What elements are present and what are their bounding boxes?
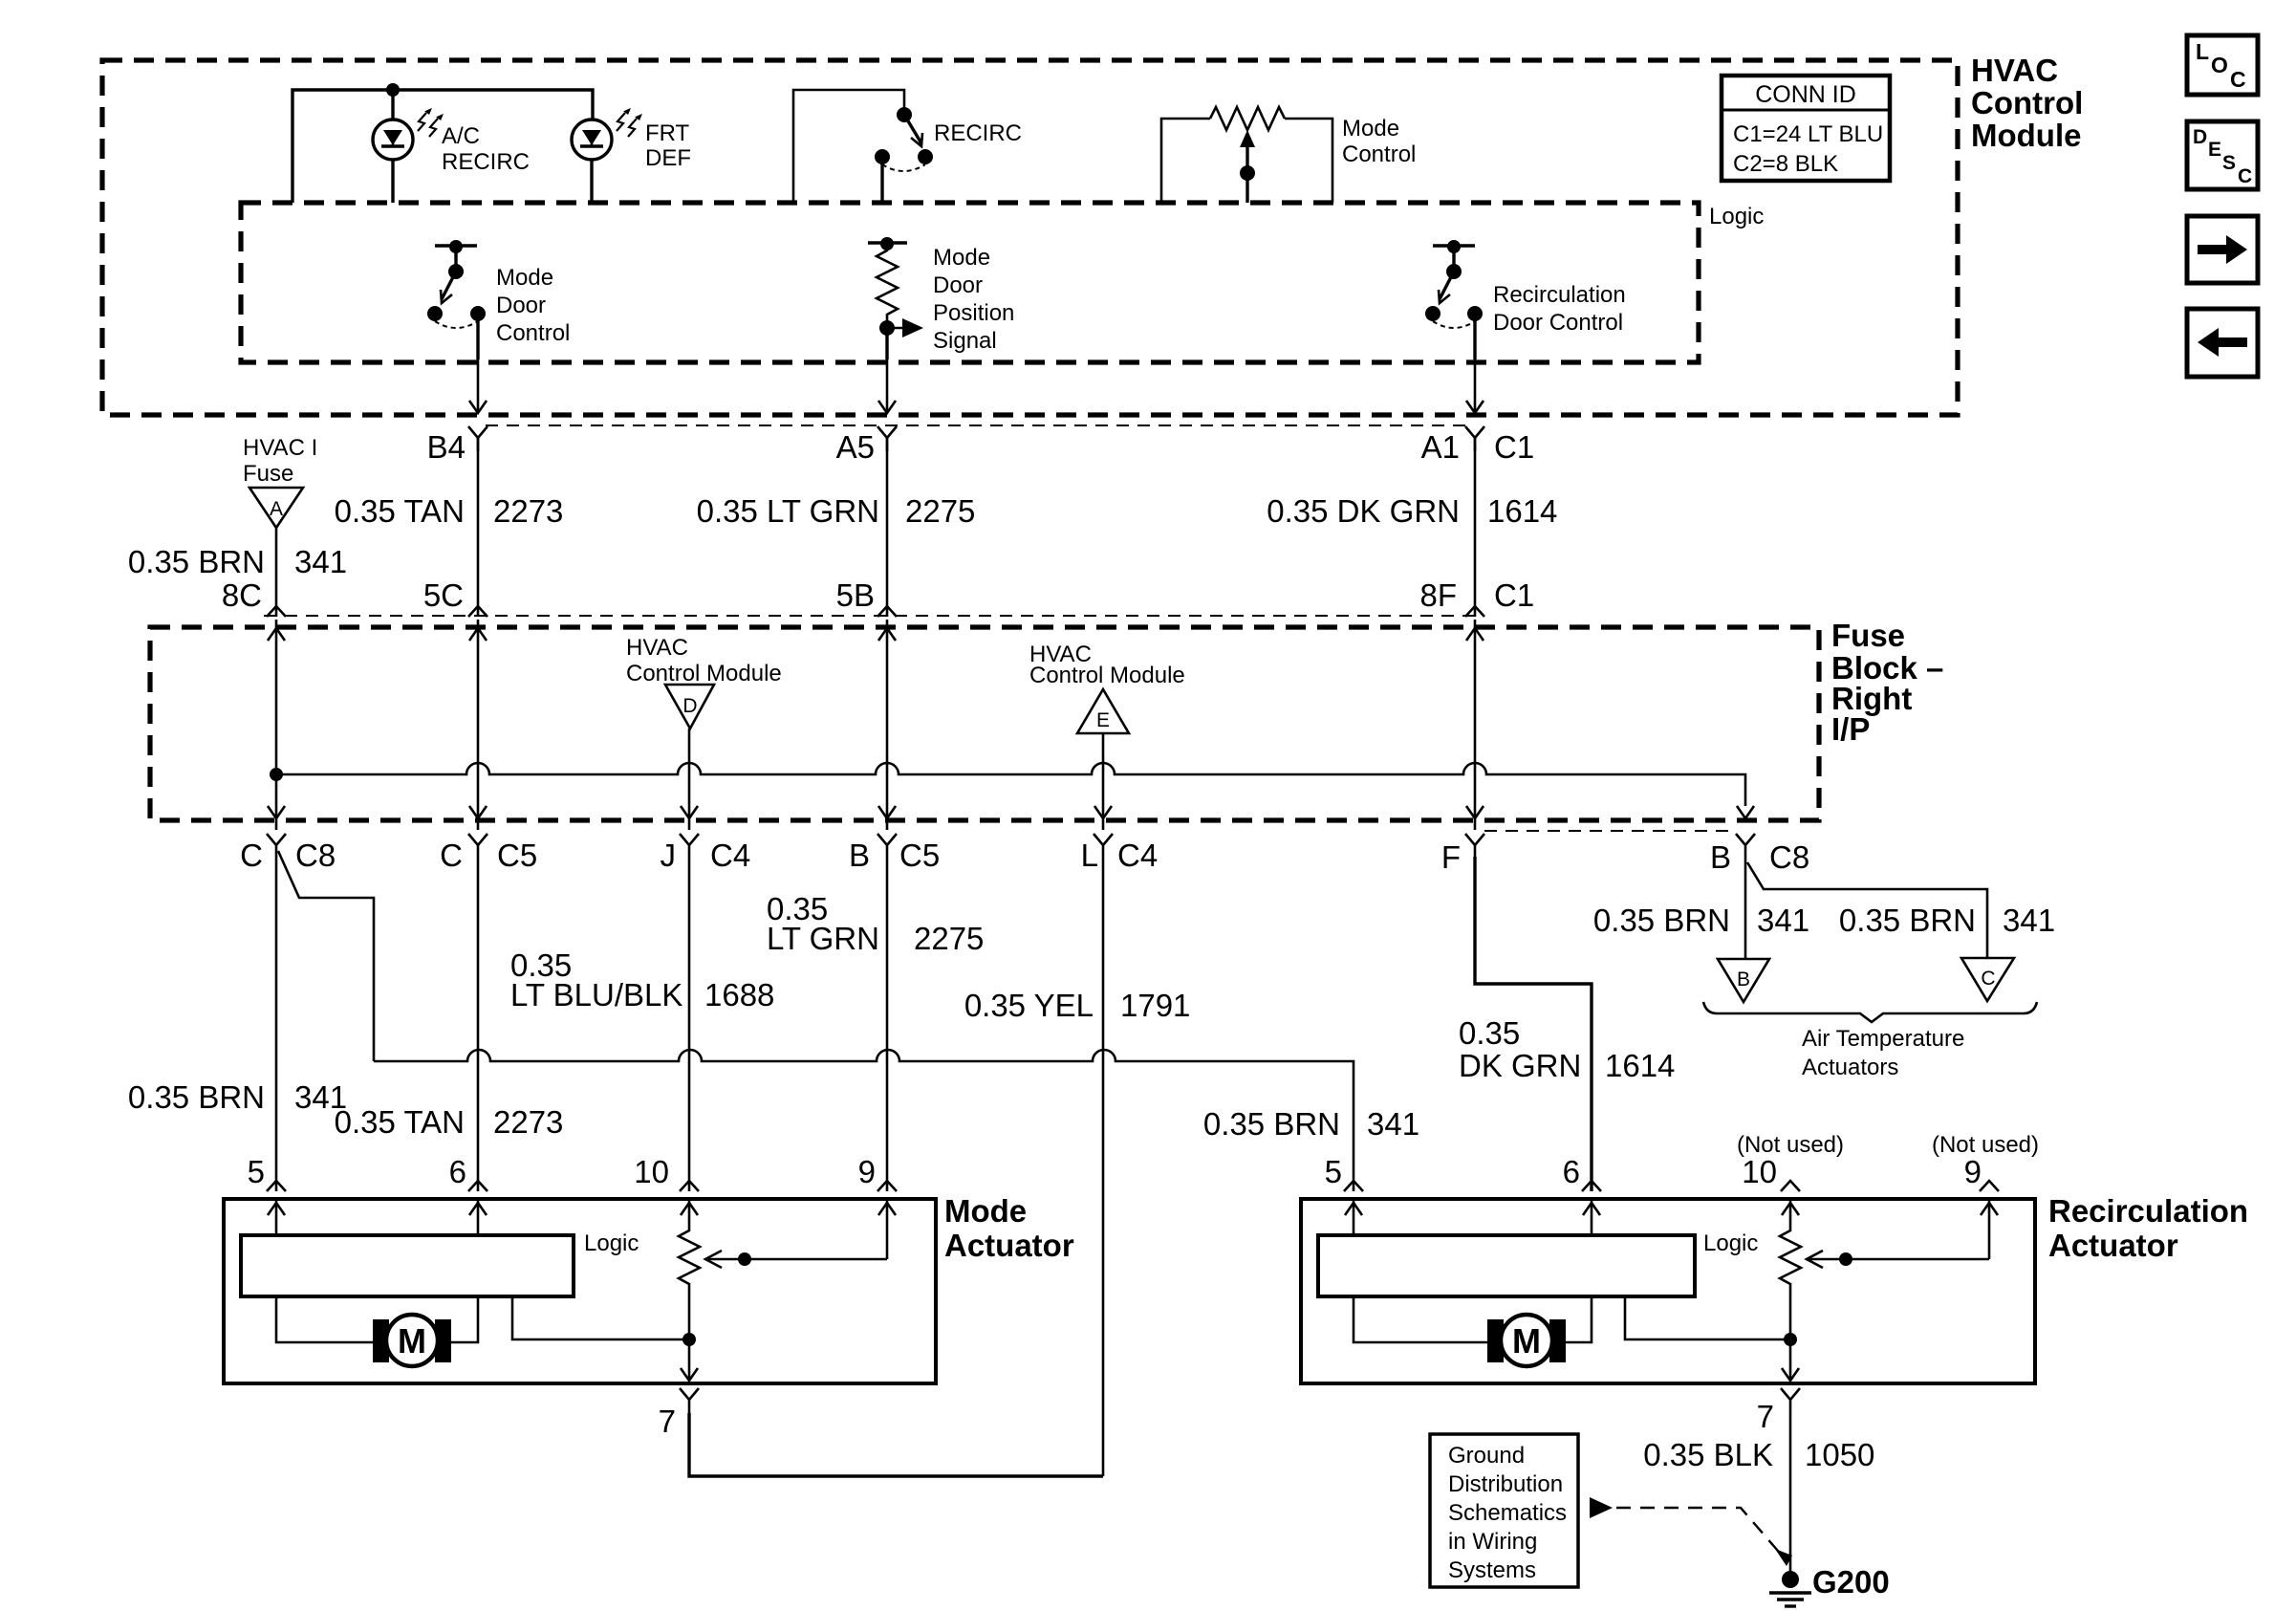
recirc wire pin10 entry bbox=[1782, 1201, 1799, 1227]
svg-text:B: B bbox=[1710, 839, 1731, 875]
svg-text:DK GRN: DK GRN bbox=[1459, 1048, 1581, 1083]
svg-text:(Not used): (Not used) bbox=[1737, 1132, 1844, 1158]
svg-text:C: C bbox=[1981, 968, 1995, 990]
svg-text:D: D bbox=[2193, 126, 2207, 148]
wire colF upper bbox=[1474, 438, 1477, 617]
svg-text:Distribution: Distribution bbox=[1448, 1471, 1563, 1497]
svg-text:6: 6 bbox=[1563, 1154, 1580, 1189]
ground leader arrow bbox=[1590, 1497, 1792, 1566]
junction dot bbox=[386, 83, 400, 97]
svg-text:8C: 8C bbox=[222, 577, 262, 613]
svg-text:C5: C5 bbox=[899, 838, 940, 873]
HVAC Control Module label bbox=[1971, 53, 2083, 153]
brown wire jog C8 to recirc pin5 bbox=[278, 851, 1354, 1191]
svg-text:C8: C8 bbox=[1769, 839, 1809, 875]
wire colD upper bbox=[886, 438, 889, 617]
pin J C4 bbox=[661, 834, 751, 873]
wire label 0.35 LT BLU/BLK 1688 bbox=[510, 947, 774, 1012]
dkgrn wire colF to recirc pin6 bbox=[1475, 857, 1592, 1191]
svg-text:0.35 BRN: 0.35 BRN bbox=[1593, 903, 1730, 938]
svg-text:F: F bbox=[1441, 839, 1461, 875]
svg-text:0.35 LT GRN: 0.35 LT GRN bbox=[697, 493, 879, 529]
G200 ground bbox=[1769, 1564, 1890, 1606]
svg-text:J: J bbox=[661, 838, 677, 873]
mode logic rect bbox=[241, 1235, 574, 1296]
svg-text:Control: Control bbox=[1342, 142, 1416, 167]
recirc junction drop bbox=[1782, 1289, 1799, 1381]
svg-text:C4: C4 bbox=[710, 838, 750, 873]
HVAC Control Module E caption bbox=[1029, 642, 1185, 688]
svg-text:HVAC: HVAC bbox=[1971, 53, 2058, 88]
svg-text:Door: Door bbox=[933, 272, 983, 298]
wire label 0.35 BLK 1050 bbox=[1643, 1437, 1874, 1472]
svg-text:341: 341 bbox=[2003, 903, 2055, 938]
wire label 0.35 TAN 2273 lower bbox=[335, 1104, 564, 1140]
svg-text:341: 341 bbox=[1757, 903, 1809, 938]
svg-text:6: 6 bbox=[449, 1154, 466, 1189]
mode pin 7 bbox=[659, 1388, 699, 1439]
HVAC Control Module D caption bbox=[626, 635, 782, 686]
svg-text:Door Control: Door Control bbox=[1493, 310, 1623, 336]
pin 8F C1 bbox=[1419, 577, 1534, 617]
svg-text:Door: Door bbox=[496, 293, 546, 318]
wire label 0.35 BRN 341 left bbox=[128, 1079, 347, 1115]
recirc motor M bbox=[1487, 1315, 1566, 1366]
pin B4 bbox=[427, 426, 487, 465]
LOC legend box bbox=[2187, 35, 2258, 95]
svg-text:I/P: I/P bbox=[1831, 711, 1870, 747]
mode pot wiper bbox=[705, 1251, 887, 1268]
fuse wire colB bbox=[469, 620, 487, 830]
fuse bus with hops bbox=[276, 763, 1754, 818]
svg-text:B4: B4 bbox=[427, 429, 466, 465]
mode wire pin5 entry bbox=[268, 1201, 285, 1235]
recirc wire pin6 entry bbox=[1583, 1201, 1600, 1235]
recirc pin 9 not used bbox=[1932, 1132, 2039, 1191]
svg-text:LT GRN: LT GRN bbox=[767, 921, 879, 956]
fuse wire colF bbox=[1466, 620, 1484, 830]
A/C RECIRC indicator LED bbox=[373, 90, 445, 203]
svg-text:Control Module: Control Module bbox=[1029, 663, 1185, 688]
svg-text:Actuator: Actuator bbox=[2048, 1228, 2178, 1263]
mode wire pin6 entry bbox=[469, 1201, 487, 1235]
wire label 0.35 BRN 341 recirc5 bbox=[1203, 1106, 1419, 1142]
Recirculation Actuator box bbox=[1301, 1199, 2035, 1383]
svg-text:E: E bbox=[1096, 709, 1110, 731]
recirc pin 5 bbox=[1325, 1154, 1363, 1191]
svg-text:5: 5 bbox=[248, 1154, 265, 1189]
svg-text:0.35 TAN: 0.35 TAN bbox=[335, 1104, 465, 1140]
svg-text:A1: A1 bbox=[1421, 429, 1460, 465]
recirc logic label bbox=[1703, 1230, 1758, 1256]
fuse wire colC lower bbox=[681, 774, 698, 830]
svg-text:C1: C1 bbox=[1494, 429, 1534, 465]
mode potentiometer bbox=[679, 1227, 700, 1289]
brown wire colA to mode pin5 bbox=[275, 857, 278, 1191]
recirc motor left wire bbox=[1354, 1296, 1487, 1342]
ltblu wire colC to mode pin10 bbox=[688, 857, 691, 1191]
mode wire pin9 entry bbox=[878, 1201, 896, 1259]
svg-text:Mode: Mode bbox=[933, 245, 990, 271]
svg-text:0.35 BRN: 0.35 BRN bbox=[1203, 1106, 1340, 1142]
connector C1 dashed line bbox=[486, 425, 1469, 426]
svg-text:9: 9 bbox=[1964, 1154, 1982, 1189]
svg-text:Actuator: Actuator bbox=[944, 1228, 1074, 1263]
svg-text:HVAC I: HVAC I bbox=[243, 435, 317, 461]
DESC legend box bbox=[2187, 121, 2258, 189]
HVAC I Fuse label bbox=[243, 435, 317, 487]
pin 5B bbox=[836, 577, 897, 617]
svg-text:Module: Module bbox=[1971, 118, 2081, 153]
svg-text:C8: C8 bbox=[295, 838, 336, 873]
pin C C8 bbox=[240, 834, 336, 873]
svg-text:1050: 1050 bbox=[1805, 1437, 1874, 1472]
svg-text:C: C bbox=[240, 838, 263, 873]
black ground wire bbox=[1789, 1411, 1792, 1574]
svg-text:1614: 1614 bbox=[1487, 493, 1557, 529]
mode pin 5 bbox=[248, 1154, 286, 1191]
svg-text:2275: 2275 bbox=[905, 493, 975, 529]
fuse bus junction dot bbox=[270, 768, 283, 781]
svg-text:C1=24 LT BLU: C1=24 LT BLU bbox=[1733, 121, 1883, 147]
svg-text:5C: 5C bbox=[423, 577, 464, 613]
svg-text:9: 9 bbox=[858, 1154, 876, 1189]
recirc pin 7 bbox=[1757, 1388, 1800, 1434]
Mode Door Control switch bbox=[427, 240, 486, 359]
svg-text:Control Module: Control Module bbox=[626, 661, 782, 686]
svg-text:L: L bbox=[2196, 39, 2209, 64]
svg-text:1791: 1791 bbox=[1120, 988, 1190, 1023]
svg-text:0.35 TAN: 0.35 TAN bbox=[335, 493, 465, 529]
Mode Door Control label bbox=[496, 265, 570, 346]
svg-text:LT BLU/BLK: LT BLU/BLK bbox=[510, 977, 682, 1012]
svg-text:0.35 BRN: 0.35 BRN bbox=[1839, 903, 1976, 938]
wire label 0.35 LT GRN 2275 bbox=[697, 493, 976, 529]
svg-text:Logic: Logic bbox=[1709, 204, 1764, 229]
Fuse Block Right I/P label bbox=[1831, 618, 1943, 747]
svg-text:FRT: FRT bbox=[645, 120, 690, 146]
svg-text:CONN ID: CONN ID bbox=[1755, 81, 1856, 108]
E triangle bbox=[1077, 689, 1129, 774]
fuse A triangle bbox=[249, 488, 303, 550]
yellow wire colE to mode pin7 bbox=[689, 857, 1103, 1476]
recirc pin 10 not used bbox=[1737, 1132, 1844, 1191]
left arrow legend box bbox=[2187, 309, 2258, 377]
svg-text:1688: 1688 bbox=[704, 977, 774, 1012]
recirc pot wiper bbox=[1807, 1251, 1989, 1268]
svg-text:341: 341 bbox=[1367, 1106, 1419, 1142]
mode wire pin10 entry bbox=[681, 1201, 698, 1227]
svg-text:B: B bbox=[849, 838, 870, 873]
svg-text:DEF: DEF bbox=[645, 145, 691, 171]
svg-text:C: C bbox=[2230, 67, 2246, 92]
connector C8 dashed line bbox=[1484, 830, 1736, 832]
fuse block connector dashed line bbox=[264, 615, 1480, 617]
svg-text:Control: Control bbox=[496, 320, 570, 346]
svg-text:2273: 2273 bbox=[493, 1104, 563, 1140]
pin F bbox=[1441, 834, 1484, 875]
svg-text:5: 5 bbox=[1325, 1154, 1342, 1189]
fuse wire colE lower bbox=[1094, 774, 1112, 830]
svg-text:Recirculation: Recirculation bbox=[2048, 1193, 2248, 1229]
FRT DEF label bbox=[645, 120, 691, 171]
RECIRC switch bbox=[793, 90, 933, 203]
svg-text:1614: 1614 bbox=[1605, 1048, 1675, 1083]
svg-text:0.35 BRN: 0.35 BRN bbox=[128, 544, 265, 579]
recirc motor right wire bbox=[1566, 1296, 1592, 1342]
svg-text:2273: 2273 bbox=[493, 493, 563, 529]
svg-text:C2=8 BLK: C2=8 BLK bbox=[1733, 151, 1838, 177]
mode pin 9 bbox=[858, 1154, 897, 1191]
svg-text:0.35 BRN: 0.35 BRN bbox=[128, 1079, 265, 1115]
Mode Actuator label bbox=[944, 1193, 1074, 1263]
pin L C4 bbox=[1081, 834, 1159, 873]
Mode Door Position Signal label bbox=[933, 245, 1014, 354]
wire label 0.35 LT GRN 2275 lower bbox=[767, 891, 984, 956]
Ground Distribution box bbox=[1430, 1434, 1578, 1587]
wire label 0.35 TAN 2273 bbox=[335, 493, 564, 529]
tan wire colB to mode pin6 bbox=[477, 857, 480, 1191]
mode motor M bbox=[373, 1315, 451, 1366]
svg-text:Fuse: Fuse bbox=[1831, 618, 1905, 653]
svg-text:0.35 BLK: 0.35 BLK bbox=[1643, 1437, 1773, 1472]
HVAC Control Module dashed box bbox=[102, 60, 1958, 415]
fuse wire colD bbox=[878, 620, 896, 830]
Recirculation Door Control label bbox=[1493, 282, 1626, 336]
recirc wire pin9 entry bbox=[1981, 1201, 1998, 1259]
mode motor left wire bbox=[276, 1296, 373, 1342]
svg-text:G200: G200 bbox=[1812, 1564, 1890, 1600]
svg-text:in Wiring: in Wiring bbox=[1448, 1529, 1537, 1555]
mode logic to junction wire bbox=[512, 1296, 696, 1346]
CONN ID table bbox=[1722, 76, 1890, 181]
Recirculation Door Control switch bbox=[1425, 240, 1483, 359]
svg-text:Ground: Ground bbox=[1448, 1443, 1525, 1469]
wire label 0.35 YEL 1791 bbox=[964, 988, 1191, 1023]
brown wire B C8 to triangle B bbox=[1744, 855, 1747, 959]
svg-text:(Not used): (Not used) bbox=[1932, 1132, 2039, 1158]
svg-text:RECIRC: RECIRC bbox=[934, 120, 1022, 146]
mode junction drop bbox=[681, 1289, 698, 1381]
svg-text:8F: 8F bbox=[1419, 577, 1457, 613]
right arrow legend box bbox=[2187, 216, 2258, 283]
B triangle bbox=[1718, 959, 1769, 1002]
pin B C8 right bbox=[1710, 834, 1809, 875]
Logic sub-box dashed bbox=[241, 203, 1699, 362]
svg-text:0.35 DK GRN: 0.35 DK GRN bbox=[1267, 493, 1460, 529]
svg-text:C: C bbox=[440, 838, 463, 873]
recirc logic rect bbox=[1318, 1235, 1695, 1296]
A/C RECIRC label bbox=[442, 123, 530, 175]
svg-text:Logic: Logic bbox=[584, 1230, 639, 1256]
svg-text:Logic: Logic bbox=[1703, 1230, 1758, 1256]
wire colB upper bbox=[477, 438, 480, 617]
svg-text:10: 10 bbox=[1742, 1154, 1777, 1189]
svg-text:A5: A5 bbox=[836, 429, 875, 465]
svg-text:C5: C5 bbox=[497, 838, 537, 873]
wire label 0.35 DK GRN 1614 bbox=[1267, 493, 1557, 529]
svg-text:Control: Control bbox=[1971, 85, 2083, 120]
svg-text:7: 7 bbox=[659, 1404, 676, 1439]
svg-text:5B: 5B bbox=[836, 577, 875, 613]
D triangle bbox=[665, 685, 714, 774]
pin A1 C1 bbox=[1421, 426, 1535, 465]
svg-text:0.35: 0.35 bbox=[1459, 1015, 1520, 1051]
wire B4 drop bbox=[469, 359, 487, 413]
svg-text:Actuators: Actuators bbox=[1802, 1055, 1898, 1080]
Mode Control potentiometer bbox=[1161, 107, 1332, 203]
svg-text:HVAC: HVAC bbox=[626, 635, 688, 661]
mode pin 10 bbox=[634, 1154, 699, 1191]
svg-text:L: L bbox=[1081, 838, 1098, 873]
svg-text:A: A bbox=[270, 498, 283, 520]
svg-text:B: B bbox=[1737, 969, 1750, 991]
mode motor right wire bbox=[451, 1296, 478, 1342]
pin 8C bbox=[222, 577, 286, 617]
Mode Control label bbox=[1342, 116, 1416, 167]
wire label 0.35 BRN 341 (fuse) bbox=[128, 544, 347, 579]
svg-text:E: E bbox=[2208, 139, 2221, 161]
svg-text:M: M bbox=[398, 1321, 426, 1361]
LED supply wire bbox=[292, 90, 593, 203]
Logic label bbox=[1709, 204, 1764, 229]
pin A5 bbox=[836, 426, 897, 465]
Mode Actuator box bbox=[224, 1199, 936, 1383]
recirc potentiometer bbox=[1780, 1227, 1801, 1289]
svg-text:O: O bbox=[2211, 53, 2228, 77]
RECIRC label bbox=[934, 120, 1022, 146]
svg-text:C4: C4 bbox=[1117, 838, 1158, 873]
svg-text:Schematics: Schematics bbox=[1448, 1500, 1567, 1526]
pin 5C bbox=[423, 577, 487, 617]
wire label 0.35 BRN 341 triB bbox=[1593, 903, 1809, 938]
pin B C5 bbox=[849, 834, 940, 873]
svg-text:10: 10 bbox=[634, 1154, 669, 1189]
wire label 0.35 BRN 341 triC bbox=[1839, 903, 2055, 938]
svg-text:Systems: Systems bbox=[1448, 1557, 1536, 1583]
svg-text:341: 341 bbox=[294, 544, 347, 579]
mode logic label bbox=[584, 1230, 639, 1256]
svg-text:M: M bbox=[1512, 1321, 1541, 1361]
svg-text:Position: Position bbox=[933, 300, 1014, 326]
C triangle bbox=[1961, 958, 2014, 1001]
wire label 0.35 DK GRN 1614 lower bbox=[1459, 1015, 1675, 1083]
svg-text:Fuse: Fuse bbox=[243, 461, 293, 487]
svg-text:Mode: Mode bbox=[496, 265, 553, 291]
svg-text:0.35 YEL: 0.35 YEL bbox=[964, 988, 1094, 1023]
Fuse Block dashed box bbox=[150, 627, 1819, 820]
Recirculation Actuator label bbox=[2048, 1193, 2248, 1263]
recirc wire pin5 entry bbox=[1345, 1201, 1362, 1235]
mode pin 6 bbox=[449, 1154, 487, 1191]
recirc logic to junction wire bbox=[1625, 1296, 1797, 1346]
recirc pin 6 bbox=[1563, 1154, 1601, 1191]
svg-text:7: 7 bbox=[1757, 1399, 1774, 1434]
wire A1 drop bbox=[1466, 359, 1484, 413]
svg-text:RECIRC: RECIRC bbox=[442, 149, 530, 175]
fuse wire colA bbox=[268, 620, 285, 830]
ltgrn wire colD to mode pin9 bbox=[886, 857, 889, 1191]
svg-text:Mode: Mode bbox=[1342, 116, 1399, 142]
svg-text:A/C: A/C bbox=[442, 123, 480, 149]
svg-text:C1: C1 bbox=[1494, 577, 1534, 613]
svg-text:2275: 2275 bbox=[914, 921, 984, 956]
wire colA upper bbox=[275, 550, 278, 617]
svg-text:Recirculation: Recirculation bbox=[1493, 282, 1626, 308]
FRT DEF indicator LED bbox=[572, 106, 644, 203]
wire A5 drop bbox=[878, 359, 896, 413]
pin C C5 bbox=[440, 834, 537, 873]
svg-text:Mode: Mode bbox=[944, 1193, 1027, 1229]
Mode Door Position Signal resistor bbox=[868, 237, 923, 359]
svg-text:D: D bbox=[682, 695, 697, 717]
Air Temperature Actuators label bbox=[1802, 1026, 1964, 1080]
brown wire diag to triangle C bbox=[1747, 862, 1987, 958]
svg-text:Air Temperature: Air Temperature bbox=[1802, 1026, 1964, 1052]
svg-text:Signal: Signal bbox=[933, 328, 997, 354]
svg-text:C: C bbox=[2238, 165, 2252, 187]
air temperature actuators brace bbox=[1703, 1002, 2037, 1022]
svg-text:S: S bbox=[2222, 152, 2236, 174]
